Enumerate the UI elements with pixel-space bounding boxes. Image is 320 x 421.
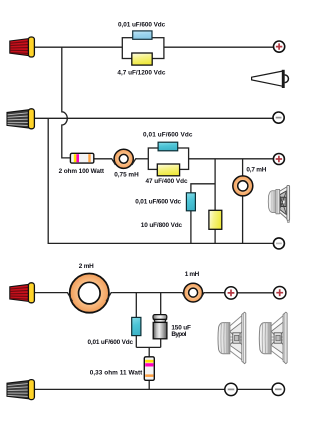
- wire mid main resistor to inductor: [94, 158, 112, 160]
- wire tee to 0,01uF branch: [191, 184, 215, 244]
- wire shunt branch 0,7mH: [242, 159, 244, 244]
- inductor 0,75 mH: [114, 149, 133, 168]
- wire tweeter minus run: [33, 117, 273, 119]
- svg-text:Bypol: Bypol: [171, 331, 186, 338]
- svg-text:0,01 uF/600 Vdc: 0,01 uF/600 Vdc: [88, 339, 134, 346]
- wire dip into 2mH right: [106, 293, 113, 302]
- midrange driver icon: [268, 185, 289, 222]
- resistor 0,33 ohm 11 Watt: [144, 357, 154, 381]
- terminal circle woofer minus 1: [225, 383, 237, 395]
- wire top main from red terminal to cap box: [33, 46, 122, 48]
- capacitor 0,01uF/600Vdc top: [133, 31, 152, 39]
- svg-text:0,75 mH: 0,75 mH: [114, 171, 139, 178]
- input terminal red top: [10, 37, 35, 57]
- wire vertical drop with hop over tweeter minus wire: [62, 47, 71, 158]
- input terminal red woofer: [10, 283, 35, 303]
- inductor 0,7 mH shunt: [233, 176, 253, 196]
- capacitor 4,7uF/1200Vdc: [132, 53, 152, 65]
- svg-text:0,01 uF/600 Vdc: 0,01 uF/600 Vdc: [143, 132, 193, 139]
- capacitor 150 uF Bypol electrolytic: [153, 315, 167, 339]
- wire zobel resistor drop: [148, 347, 150, 389]
- svg-text:2 mH: 2 mH: [79, 263, 94, 270]
- terminal circle tweeter minus: [273, 112, 284, 123]
- terminal circle woofer plus 2: [274, 287, 286, 299]
- wire between minus circles: [237, 388, 272, 390]
- wire woofer bottom bus: [33, 388, 225, 390]
- terminal circle mid plus: [273, 154, 284, 165]
- wire box to tweeter plus: [164, 46, 274, 48]
- terminal circle woofer minus 2: [272, 383, 284, 395]
- input terminal black (tweeter minus): [7, 109, 34, 129]
- woofer driver icon 2: [259, 312, 287, 363]
- woofer driver icon 1: [218, 312, 246, 363]
- wire mid inductor to box: [136, 158, 148, 160]
- capacitor 47uF/400Vdc: [157, 164, 179, 176]
- wire dip into 1mH left: [181, 293, 186, 299]
- svg-text:0,33 ohm 11 Watt: 0,33 ohm 11 Watt: [90, 370, 143, 377]
- capacitor 10uF/800Vdc shunt vertical: [209, 210, 222, 229]
- svg-text:1 mH: 1 mH: [185, 271, 200, 278]
- parallel box tweeter caps: [122, 38, 164, 59]
- wire between plus circles: [237, 292, 273, 294]
- wire 2mH to 1mH: [113, 292, 181, 294]
- terminal circle woofer plus 1: [225, 287, 237, 299]
- svg-text:0,01 uF/600 Vdc: 0,01 uF/600 Vdc: [118, 22, 166, 29]
- svg-text:47 uF/400 Vdc: 47 uF/400 Vdc: [146, 178, 188, 185]
- resistor 2 ohm 100 Watt: [70, 153, 93, 163]
- horn tweeter: [252, 70, 289, 88]
- wire woofer main: [33, 292, 66, 294]
- wire dip into 0,75mH left: [111, 159, 116, 165]
- wire 1mH to plus circles: [205, 292, 225, 294]
- svg-text:0,7 mH: 0,7 mH: [246, 167, 266, 174]
- svg-text:10 uF/800 Vdc: 10 uF/800 Vdc: [141, 222, 183, 229]
- wire zobel branch right: [160, 293, 162, 348]
- svg-text:2 ohm 100 Watt: 2 ohm 100 Watt: [59, 168, 105, 175]
- wire zobel join: [136, 346, 160, 348]
- inductor 2 mH: [70, 274, 109, 313]
- wire dip into 0,75mH right: [132, 159, 137, 165]
- wire drop to midrange bottom bus: [48, 118, 273, 243]
- parallel box mid caps: [148, 148, 188, 169]
- wire mid box to plus terminal: [189, 158, 274, 160]
- wire dip into 1mH right: [200, 293, 205, 299]
- input terminal black bottom: [7, 380, 34, 400]
- capacitor 0,01uF/600Vdc zobel: [132, 317, 141, 335]
- svg-text:0,01 uF/600 Vdc: 0,01 uF/600 Vdc: [135, 198, 181, 205]
- inductor 1 mH: [184, 283, 203, 302]
- terminal circle tweeter plus: [274, 41, 285, 52]
- wire zobel branch left: [135, 293, 137, 348]
- wire dip into 2mH left: [66, 293, 73, 302]
- capacitor 0,01uF/600Vdc mid: [158, 142, 178, 151]
- terminal circle mid minus: [273, 238, 284, 249]
- svg-text:4,7 uF/1200 Vdc: 4,7 uF/1200 Vdc: [117, 70, 165, 77]
- capacitor 0,01uF/600Vdc shunt vertical: [186, 193, 195, 211]
- wire shunt branch 10uF: [214, 159, 216, 244]
